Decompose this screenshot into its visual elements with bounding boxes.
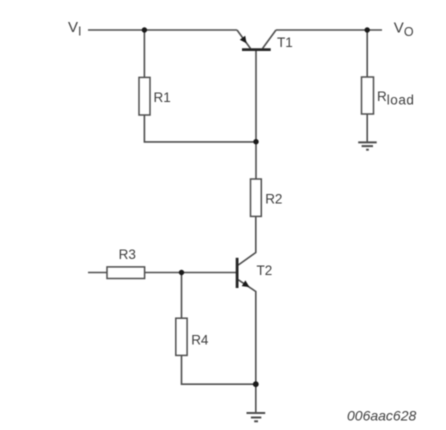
svg-text:T1: T1 (277, 35, 293, 50)
svg-text:R2: R2 (265, 191, 282, 206)
svg-text:T2: T2 (257, 263, 273, 278)
svg-text:R1: R1 (154, 90, 171, 105)
svg-text:R3: R3 (119, 247, 136, 262)
svg-text:VO: VO (394, 19, 414, 39)
svg-text:VI: VI (68, 19, 82, 38)
svg-text:006aac628: 006aac628 (347, 408, 417, 424)
svg-text:R4: R4 (191, 332, 209, 347)
svg-text:Rload: Rload (377, 89, 414, 107)
